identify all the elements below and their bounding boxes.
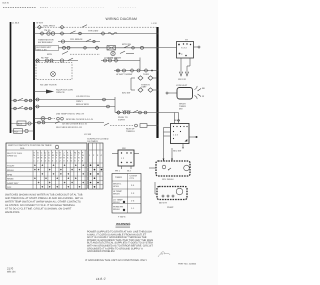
- svg-text:BAL SW: BAL SW: [122, 92, 131, 95]
- label water temp row 2: [57, 117, 93, 121]
- svg-text:WHIRLPOOL: WHIRLPOOL: [5, 211, 21, 214]
- timer chart sub table: [89, 143, 104, 189]
- svg-text:LID SW 22-16: LID SW 22-16: [76, 95, 91, 98]
- svg-text:MTR SW: MTR SW: [122, 43, 132, 46]
- svg-text:DIAL: DIAL: [20, 147, 26, 150]
- lamp indicator DS2: [34, 117, 55, 121]
- svg-text:TM 3A: TM 3A: [44, 29, 51, 32]
- svg-text:M: M: [74, 151, 76, 154]
- svg-text:RLY: RLY: [14, 130, 19, 133]
- wire N bus: [33, 22, 35, 140]
- svg-text:HTR 240V: HTR 240V: [88, 30, 99, 33]
- branch row 3 wire: [59, 47, 158, 49]
- svg-text:MO: MO: [179, 108, 183, 111]
- switch speed select wire B: [104, 123, 157, 127]
- warning paragraph: [87, 231, 153, 254]
- svg-text:BUZ: BUZ: [18, 123, 23, 126]
- svg-text:DAMP DRY: DAMP DRY: [7, 182, 19, 185]
- wire selector left stubs: [164, 128, 171, 137]
- svg-text:L1 BLK: L1 BLK: [12, 22, 20, 25]
- wire selector risers: [115, 113, 179, 124]
- svg-text:WASH: WASH: [113, 193, 120, 196]
- label hi watt heater: [114, 69, 157, 77]
- wire valve feeders: [163, 136, 173, 161]
- svg-text:SPIN: SPIN: [7, 173, 13, 176]
- label mov: [47, 51, 100, 56]
- timer chart header texts: [7, 151, 85, 162]
- node junction riser: [115, 97, 131, 114]
- svg-text:TH: TH: [185, 39, 188, 42]
- switch pressure S6: [11, 106, 34, 110]
- svg-text:WASH: WASH: [113, 208, 120, 211]
- thermostat box TH1: [107, 46, 116, 50]
- junction dots on right bus: [157, 33, 159, 127]
- dashed enclosure lint filter: [36, 63, 72, 87]
- sensor switch S4: [36, 57, 73, 63]
- relay coil K1: [11, 129, 34, 134]
- svg-text:SWITCH CONTACTS POSITION ON TI: SWITCH CONTACTS POSITION ON TIMER: [8, 144, 52, 147]
- svg-text:BK W R: BK W R: [159, 202, 167, 205]
- svg-text:CIRC PROT: CIRC PROT: [43, 24, 56, 27]
- wire L1 bus: [10, 22, 12, 133]
- svg-text:TIMER A: TIMER A: [126, 130, 135, 133]
- svg-text:5W BRN 60HZ: 5W BRN 60HZ: [38, 41, 53, 44]
- branch row 2 wire: [58, 41, 100, 43]
- svg-text:WB 104: WB 104: [7, 270, 16, 273]
- svg-text:WIRING DIAGRAM: WIRING DIAGRAM: [106, 17, 138, 21]
- switch door S2: [70, 31, 76, 34]
- svg-text:SEL SW: SEL SW: [173, 150, 182, 153]
- svg-text:O: O: [74, 157, 76, 160]
- label timer motor: [38, 39, 54, 45]
- indicator lamp DS1: [107, 51, 134, 60]
- wire dashed top interconnect: [34, 26, 157, 28]
- svg-text:WHT 2.5A: WHT 2.5A: [37, 48, 48, 51]
- wire selector right stub: [189, 136, 198, 138]
- svg-text:IF GROUNDING THIS UNIT GO COND: IF GROUNDING THIS UNIT GO CONDITIONAL ON…: [85, 259, 147, 262]
- wire bus to timer box: [157, 47, 177, 49]
- switch lid SW1: [82, 25, 87, 28]
- branch row 1 wire: [34, 33, 157, 35]
- switch push-to-start S7 on wire A: [117, 110, 147, 114]
- svg-text:PUMP: PUMP: [167, 206, 174, 209]
- branch lid switch wire: [34, 95, 115, 103]
- motor M1 rounded box: [166, 88, 193, 100]
- branch buzzer wire: [34, 103, 115, 108]
- label above sub-table: [87, 138, 109, 143]
- ground chassis symbol: [34, 89, 74, 94]
- svg-text:PERM PR: PERM PR: [113, 205, 123, 208]
- label blower motor: [36, 46, 59, 52]
- svg-text:WASH: WASH: [7, 169, 14, 172]
- svg-text:HI WATT 5200W: HI WATT 5200W: [116, 73, 133, 76]
- svg-text:LIMIT: LIMIT: [141, 86, 147, 89]
- label under mid box: [115, 170, 132, 173]
- svg-text:CH NO CH NOR B-D 1-B: CH NO CH NOR B-D 1-B: [62, 123, 87, 126]
- connector plug P3: [101, 32, 105, 36]
- svg-text:SOL WASH: SOL WASH: [162, 178, 174, 181]
- svg-text:RINSE: RINSE: [7, 178, 14, 181]
- svg-text:HI TEMP: HI TEMP: [113, 190, 122, 193]
- warning title: [116, 222, 132, 227]
- svg-text:LO SW: LO SW: [84, 133, 92, 136]
- svg-text:PART NO. 213944: PART NO. 213944: [178, 263, 197, 266]
- water valve box WV1: [149, 161, 190, 176]
- svg-text:O: O: [52, 157, 54, 160]
- svg-text:14-8.-2: 14-8.-2: [96, 277, 106, 281]
- motor protector OL1: [44, 29, 55, 35]
- svg-text:PR 1: PR 1: [115, 170, 121, 173]
- svg-text:J: J: [63, 151, 64, 154]
- branch row 4 wire: [34, 60, 78, 62]
- svg-text:JAN TEMP A-NO-D TAN 1-R: JAN TEMP A-NO-D TAN 1-R: [56, 113, 84, 116]
- svg-text:NOR WH CH NOR A-D 1-N: NOR WH CH NOR A-D 1-N: [66, 118, 93, 121]
- svg-text:START: START: [118, 119, 126, 122]
- connector plug P2: [60, 32, 64, 36]
- label under pump: [159, 202, 174, 210]
- label nor speed timer: [126, 128, 135, 133]
- svg-text:MOV: MOV: [47, 53, 53, 56]
- buzzer BZ1: [11, 121, 34, 126]
- label water temp row 3: [55, 121, 87, 125]
- bottom left part number: [7, 267, 16, 274]
- svg-text:LO WATT 1500W: LO WATT 1500W: [104, 56, 122, 59]
- pump box PM1: [155, 182, 187, 200]
- svg-text:HOLD: HOLD: [113, 185, 119, 188]
- svg-text:1 2 3: 1 2 3: [173, 134, 179, 137]
- timer sequence sub chart: [112, 174, 141, 214]
- svg-text:OFF: OFF: [7, 186, 12, 189]
- svg-text:F SW 5: F SW 5: [118, 216, 126, 219]
- wire timer box down legs: [181, 58, 190, 71]
- svg-text:M: M: [52, 154, 54, 157]
- svg-text:THER: THER: [143, 73, 149, 76]
- svg-text:G: G: [56, 151, 58, 154]
- svg-text:OPEN CU: OPEN CU: [7, 154, 17, 157]
- thermal fuse TF1: [63, 46, 100, 50]
- thermostat cluster TH2: [131, 73, 157, 92]
- connector terminals timer: [178, 72, 189, 81]
- mid switch box SB1: [112, 150, 139, 169]
- wire timer right stub: [194, 46, 201, 48]
- svg-text:WH CHR N NO NOR 1-1R: WH CHR N NO NOR 1-1R: [56, 126, 82, 129]
- svg-text:GROUNDED PROBLEM: GROUNDED PROBLEM: [87, 250, 115, 253]
- fuse F1: [38, 24, 65, 29]
- timer chart main table: [6, 143, 87, 189]
- svg-text:O: O: [37, 154, 39, 157]
- switch motor S3: [122, 43, 144, 49]
- timer chart cell marks: [34, 164, 84, 187]
- svg-text:TIMER: TIMER: [115, 176, 122, 179]
- timer box TM1: [177, 42, 194, 59]
- switch pressure S5: [11, 98, 34, 102]
- svg-text:AG LINT FILTER: AG LINT FILTER: [40, 84, 57, 87]
- svg-text:CTS: CTS: [130, 177, 135, 180]
- svg-text:SW 120: SW 120: [178, 78, 187, 81]
- svg-text:BLK W: BLK W: [3, 2, 9, 5]
- svg-text:SEL B: SEL B: [174, 119, 181, 122]
- timer chart row labels: [7, 165, 19, 190]
- label wash timer motor: [179, 103, 186, 111]
- svg-text:CIR. BREAK: CIR. BREAK: [70, 38, 83, 41]
- svg-text:BRN W NOR: BRN W NOR: [76, 103, 89, 106]
- connector plug P1: [40, 32, 44, 36]
- wire top fold dotted line: [3, 7, 136, 9]
- circuit breaker CB1: [61, 38, 95, 43]
- svg-text:ON TIMER: ON TIMER: [87, 140, 98, 143]
- svg-text:GRN Y: GRN Y: [76, 100, 83, 103]
- wire right bus: [156, 27, 158, 138]
- bottom right pen squiggle: [158, 252, 170, 257]
- svg-text:LOW HEAT: LOW HEAT: [176, 84, 188, 87]
- selector switch box SS1: [171, 124, 190, 149]
- svg-text:WASH: WASH: [113, 201, 120, 204]
- svg-text:TODAY: TODAY: [7, 165, 15, 168]
- svg-text:WASH 1: WASH 1: [113, 183, 122, 186]
- svg-text:GRN PR: GRN PR: [56, 91, 65, 94]
- label push to start: [118, 116, 128, 121]
- connector plugs motor: [195, 86, 206, 99]
- wire start branch: [34, 121, 104, 124]
- svg-text:SHUT OF DIAL: SHUT OF DIAL: [7, 152, 23, 155]
- svg-text:N W R: N W R: [37, 22, 44, 25]
- connector plug P2b: [79, 32, 82, 35]
- svg-text:WARNING: WARNING: [116, 222, 131, 226]
- notes paragraph under table: [5, 194, 84, 215]
- label lo watt heater: [101, 56, 140, 70]
- svg-text:T1 T2: T1 T2: [181, 46, 187, 49]
- heater element R1: [108, 32, 117, 35]
